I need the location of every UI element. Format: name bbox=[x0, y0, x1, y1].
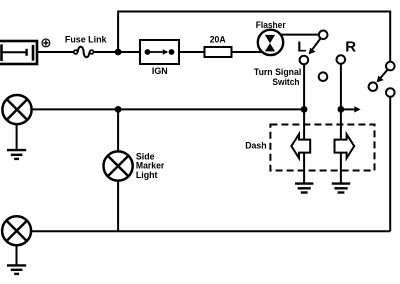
svg-text:IGN: IGN bbox=[152, 66, 168, 76]
svg-text:Fuse Link: Fuse Link bbox=[65, 35, 108, 45]
svg-text:Dash: Dash bbox=[245, 141, 266, 151]
svg-text:Marker: Marker bbox=[136, 160, 165, 170]
svg-text:Flasher: Flasher bbox=[256, 20, 286, 30]
svg-text:R: R bbox=[345, 39, 356, 56]
svg-text:20A: 20A bbox=[210, 35, 226, 45]
svg-text:Light: Light bbox=[136, 170, 158, 180]
svg-text:Turn Signal: Turn Signal bbox=[254, 67, 301, 77]
svg-text:L: L bbox=[297, 39, 306, 56]
svg-text:Switch: Switch bbox=[272, 77, 299, 87]
